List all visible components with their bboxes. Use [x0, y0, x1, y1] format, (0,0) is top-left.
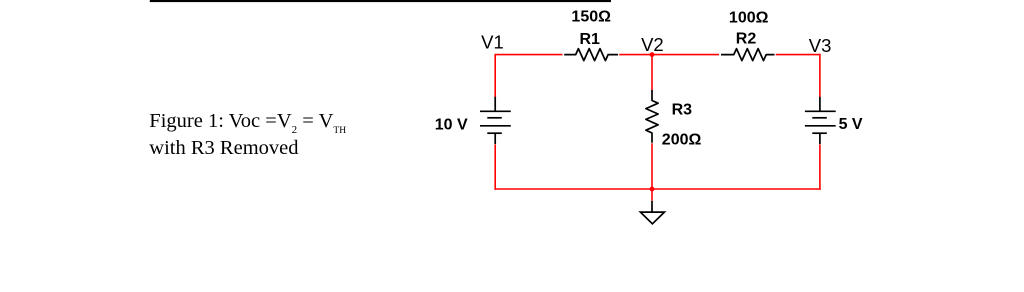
- top rule line: [150, 0, 611, 2]
- svg-text:Figure 1: Voc =V2 = VTH: Figure 1: Voc =V2 = VTH: [149, 110, 346, 136]
- wire right-bottom segment: [819, 144, 821, 190]
- battery V1: [480, 97, 511, 144]
- svg-text:100Ω: 100Ω: [729, 10, 769, 27]
- svg-text:10 V: 10 V: [435, 116, 468, 133]
- wire ground stub red: [651, 189, 653, 201]
- battery B2 (5 V source): [805, 97, 836, 144]
- resistor R2: [721, 49, 775, 61]
- svg-text:150Ω: 150Ω: [571, 9, 611, 26]
- node V2 junction dot: [650, 52, 655, 57]
- svg-text:with R3 Removed: with R3 Removed: [149, 137, 298, 159]
- svg-text:V2: V2: [641, 34, 664, 55]
- node bottom junction dot: [650, 187, 655, 192]
- svg-text:R1: R1: [579, 31, 600, 48]
- ground: [640, 201, 664, 224]
- wire V2 to R3: [651, 55, 653, 90]
- svg-text:V1: V1: [481, 32, 504, 53]
- wire bottom segment: [494, 188, 820, 190]
- svg-text:V3: V3: [809, 35, 832, 56]
- wire left-bottom segment: [494, 144, 496, 190]
- svg-text:R3: R3: [672, 101, 693, 118]
- wire R3 to bottom: [651, 143, 653, 189]
- resistor R3: [646, 90, 658, 143]
- svg-text:200Ω: 200Ω: [662, 131, 702, 148]
- wire top-left segment: [495, 55, 562, 97]
- wire top-right segment: [776, 55, 820, 97]
- resistor R1: [564, 49, 618, 61]
- svg-text:5 V: 5 V: [839, 116, 863, 133]
- wire top-middle segment: [619, 54, 719, 56]
- svg-text:R2: R2: [736, 31, 757, 48]
